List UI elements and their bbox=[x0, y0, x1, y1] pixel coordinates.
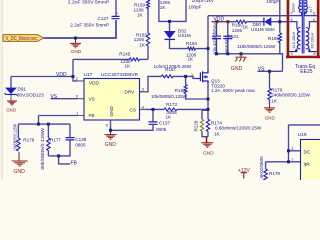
wire U17 gnd pin5 bbox=[110, 120, 112, 130]
resistor R170 bbox=[268, 89, 271, 100]
svg-text:VDD: VDD bbox=[56, 72, 67, 78]
svg-text:DRV: DRV bbox=[125, 90, 136, 95]
svg-text:1K: 1K bbox=[137, 12, 144, 17]
svg-text:US1M: US1M bbox=[178, 33, 191, 38]
wire U17 pin2 bbox=[73, 77, 78, 81]
svg-text:U17: U17 bbox=[84, 72, 93, 78]
svg-text:R164: R164 bbox=[186, 41, 197, 46]
wire y124 bbox=[18, 123, 70, 125]
ground GND main rail bbox=[70, 38, 81, 48]
svg-text:100pF/1kV: 100pF/1kV bbox=[192, 0, 215, 3]
diode D50 bbox=[264, 18, 271, 26]
junction at R174 top bbox=[207, 108, 210, 111]
svg-text:9: 9 bbox=[313, 18, 315, 22]
components bright blue bbox=[17, 0, 282, 181]
wire R179 to pin7 bbox=[266, 162, 289, 169]
svg-text:R167: R167 bbox=[165, 67, 176, 72]
junction at R170 top bbox=[268, 70, 271, 73]
svg-text:R176: R176 bbox=[23, 137, 34, 142]
svg-text:2.2uF 350V 5mmP: 2.2uF 350V 5mmP bbox=[70, 22, 109, 27]
resistor R163 bbox=[146, 33, 149, 46]
svg-text:2.2uF 350V 5mmP: 2.2uF 350V 5mmP bbox=[68, 0, 110, 5]
junction at C137 top bbox=[152, 108, 155, 111]
svg-text:FB: FB bbox=[71, 160, 78, 166]
component value and designator texts bbox=[12, 0, 310, 178]
svg-text:R180: R180 bbox=[232, 22, 243, 27]
svg-text:118k/0805/0.125W: 118k/0805/0.125W bbox=[237, 44, 276, 49]
resistor R159 bbox=[147, 0, 150, 9]
zener bottom lead bbox=[10, 95, 12, 101]
svg-text:US1M SMA: US1M SMA bbox=[251, 27, 276, 32]
wire drain vertical bbox=[207, 16, 209, 73]
wire cap1 leads bbox=[216, 22, 218, 54]
wire C137 top lead bbox=[152, 109, 154, 122]
U19 ic body bbox=[301, 140, 320, 183]
svg-text:1206: 1206 bbox=[232, 28, 243, 33]
wire R167 out to gate bbox=[173, 76, 196, 78]
junction at R168 top bbox=[184, 75, 187, 78]
resistor R167 bbox=[162, 75, 174, 78]
svg-text:C127: C127 bbox=[98, 16, 109, 21]
wire source vertical bbox=[207, 81, 209, 119]
svg-text:CS: CS bbox=[130, 107, 137, 112]
svg-text:U19: U19 bbox=[298, 132, 307, 138]
resistor R173 bbox=[164, 108, 177, 111]
svg-text:VS: VS bbox=[89, 97, 95, 102]
junction at FB divider left bbox=[37, 123, 40, 126]
svg-text:R145: R145 bbox=[119, 51, 130, 56]
diode D62 bbox=[165, 31, 176, 39]
svg-text:3: 3 bbox=[291, 52, 293, 56]
junction at Q13 drain bbox=[207, 47, 210, 50]
junction at 100pF tap bbox=[278, 20, 281, 23]
svg-text:GND: GND bbox=[203, 151, 214, 157]
svg-text:GND: GND bbox=[6, 108, 16, 113]
resistor R168 bbox=[184, 85, 187, 94]
svg-text:3: 3 bbox=[142, 88, 144, 92]
svg-text:VS: VS bbox=[50, 94, 57, 100]
svg-text:10k/0805/0.125W: 10k/0805/0.125W bbox=[151, 94, 188, 99]
junction at VDD corner bbox=[72, 75, 75, 78]
wire caps rail y54 bbox=[217, 54, 283, 72]
wire U19 pin7 stub bbox=[289, 161, 301, 163]
ground earth caps rail bbox=[236, 54, 247, 62]
junction at FB stub bbox=[57, 154, 60, 157]
resistor R228 olive bbox=[200, 119, 203, 131]
wire VDD vertical bbox=[72, 59, 74, 76]
svg-text:R173: R173 bbox=[166, 102, 177, 107]
svg-text:1206: 1206 bbox=[134, 37, 145, 42]
wire VS right bbox=[258, 70, 283, 72]
svg-text:V_DC_Boost-sec: V_DC_Boost-sec bbox=[6, 36, 38, 42]
net labels maroon bbox=[50, 17, 315, 167]
wire R159 R163 chain bbox=[147, 8, 149, 59]
svg-text:1.2A, 600V peak max: 1.2A, 600V peak max bbox=[211, 88, 256, 93]
svg-text:5: 5 bbox=[106, 124, 108, 128]
wire y48 from D62 bbox=[170, 40, 209, 49]
sheet border edge bbox=[0, 0, 2, 180]
svg-text:VDD: VDD bbox=[214, 17, 225, 23]
svg-text:0805/50V: 0805/50V bbox=[224, 35, 229, 55]
wire R177 lead bbox=[47, 124, 49, 156]
svg-text:30k/0805/0.125W: 30k/0805/0.125W bbox=[40, 127, 45, 170]
svg-text:1: 1 bbox=[76, 111, 78, 115]
svg-text:R177: R177 bbox=[50, 137, 61, 142]
wire C138 top lead bbox=[69, 124, 71, 137]
svg-text:GND: GND bbox=[13, 169, 25, 175]
U17 ic body bbox=[84, 79, 140, 121]
wire DRV stub bbox=[140, 76, 162, 91]
svg-text:C138: C138 bbox=[75, 137, 86, 142]
zener diode D91 bbox=[4, 88, 17, 96]
resistor R177 bbox=[47, 138, 50, 151]
power port +12V bbox=[241, 173, 247, 179]
resistor R176 bbox=[17, 138, 20, 151]
svg-text:C137: C137 bbox=[159, 121, 170, 126]
svg-text:1K: 1K bbox=[214, 131, 221, 136]
svg-text:190uH: 190uH bbox=[291, 2, 295, 12]
svg-text:DC: DC bbox=[304, 150, 311, 155]
svg-text:R165: R165 bbox=[268, 36, 279, 41]
svg-text:R168: R168 bbox=[175, 88, 186, 93]
wire y156 bbox=[48, 140, 70, 156]
wire snubber U bbox=[159, 0, 186, 21]
svg-text:GND: GND bbox=[265, 116, 276, 121]
ground R170 bbox=[264, 105, 275, 113]
wire VDD horizontal bbox=[11, 76, 73, 78]
junction at U19 pin3 bbox=[287, 149, 290, 152]
wire R170 chain bbox=[269, 71, 271, 104]
svg-text:UCC28742DBVR: UCC28742DBVR bbox=[101, 72, 139, 78]
svg-text:2: 2 bbox=[76, 77, 78, 81]
junction at C129 bottom bbox=[215, 52, 218, 55]
junction at D52 snubber bbox=[168, 20, 171, 23]
svg-text:GND: GND bbox=[231, 66, 243, 72]
wire R176 lead bbox=[17, 124, 19, 138]
svg-text:1K: 1K bbox=[166, 115, 173, 120]
ground U17 pin5 bbox=[105, 130, 117, 139]
svg-text:44 T: 44 T bbox=[309, 6, 313, 12]
svg-text:0805: 0805 bbox=[75, 143, 86, 148]
svg-text:240k/0805/0.125W: 240k/0805/0.125W bbox=[271, 92, 310, 97]
svg-text:100pF: 100pF bbox=[266, 0, 279, 4]
svg-text:VS: VS bbox=[258, 67, 265, 73]
resistor R145 bbox=[130, 58, 140, 61]
wire y59 to R145 bbox=[73, 58, 148, 60]
svg-text:6: 6 bbox=[76, 95, 78, 99]
capacitor C138 bbox=[66, 138, 75, 140]
svg-text:30V,SOD123: 30V,SOD123 bbox=[17, 92, 44, 97]
svg-text:0805: 0805 bbox=[156, 127, 167, 132]
wire VS stub bbox=[51, 98, 78, 100]
svg-text:100uF/0805/50V: 100uF/0805/50V bbox=[213, 22, 218, 55]
svg-text:4: 4 bbox=[142, 105, 144, 109]
transformer windings bbox=[290, 0, 317, 54]
svg-text:6: 6 bbox=[313, 12, 315, 16]
junction at C127 tap bbox=[74, 37, 77, 40]
junction at C129 top bbox=[216, 20, 219, 23]
svg-text:GND: GND bbox=[71, 49, 82, 55]
junction at earth gnd tap bbox=[240, 52, 243, 55]
svg-text:GND: GND bbox=[105, 142, 117, 148]
svg-text:10k/0805/0.125W: 10k/0805/0.125W bbox=[12, 124, 17, 151]
junction at C131 bottom bbox=[226, 52, 229, 55]
svg-text:+12V: +12V bbox=[238, 168, 250, 174]
junction at R177 top bbox=[47, 123, 50, 126]
svg-text:D91: D91 bbox=[18, 87, 27, 92]
wire VDD rail right bbox=[212, 21, 288, 23]
svg-text:1: 1 bbox=[191, 73, 193, 77]
wire zener top lead bbox=[10, 77, 12, 88]
U17 pin stubs grey bbox=[78, 81, 147, 126]
transformer T (maroon room box) bbox=[286, 0, 320, 58]
wire port to cap bbox=[44, 20, 117, 38]
svg-text:R179: R179 bbox=[269, 171, 280, 176]
wire FB label stub bbox=[59, 156, 70, 164]
transistor Q13 bbox=[196, 71, 208, 83]
svg-text:4: 4 bbox=[291, 18, 293, 22]
svg-text:VDD: VDD bbox=[89, 81, 100, 86]
wire R168 chain bbox=[186, 76, 208, 99]
transformer polarity dots bbox=[295, 11, 310, 51]
svg-text:1K: 1K bbox=[188, 57, 195, 62]
resistor R180 bbox=[236, 20, 247, 23]
wire 100pF chain bbox=[279, 0, 281, 22]
svg-text:3: 3 bbox=[291, 147, 293, 151]
wire FB pin1 bbox=[39, 116, 78, 125]
junction at Q13 source bbox=[207, 98, 210, 101]
wire R165 chain bbox=[279, 22, 281, 54]
ground zener D91 bbox=[7, 101, 17, 105]
svg-text:100pF: 100pF bbox=[188, 4, 201, 9]
junction at U19 pin7 bbox=[287, 160, 290, 163]
wire U19 feed bbox=[289, 125, 320, 162]
svg-text:1K: 1K bbox=[139, 43, 146, 48]
capacitor C131 bbox=[223, 36, 232, 38]
svg-text:Ipk: Ipk bbox=[304, 161, 311, 166]
svg-text:1K: 1K bbox=[125, 64, 132, 69]
svg-text:8: 8 bbox=[313, 52, 315, 56]
resistor R165 bbox=[279, 33, 282, 43]
svg-text:1K: 1K bbox=[160, 5, 167, 10]
ground R176 bbox=[12, 152, 28, 166]
port V_DC_Boost-sec bbox=[3, 35, 44, 43]
wire y130 to C137 bbox=[111, 125, 154, 130]
junction at C131 top bbox=[226, 20, 229, 23]
capacitor C129 bbox=[212, 36, 221, 38]
resistor R179 bbox=[264, 169, 267, 181]
wire U19 pin3 stub bbox=[289, 150, 301, 152]
svg-text:GND: GND bbox=[109, 105, 114, 116]
wire C127 top lead bbox=[115, 0, 117, 16]
svg-text:1K: 1K bbox=[271, 98, 278, 103]
wire R228 branch bbox=[202, 110, 208, 136]
wire CS to R173 bbox=[140, 108, 209, 110]
wire cap2 leads bbox=[227, 22, 229, 54]
wire y15.7 drain to transformer bbox=[208, 15, 289, 17]
svg-text:44 E 400uH: 44 E 400uH bbox=[292, 31, 296, 49]
svg-text:EE25: EE25 bbox=[300, 69, 312, 75]
wire D62 top lead bbox=[169, 21, 171, 31]
junction at U17 gnd bbox=[109, 129, 112, 132]
svg-text:FB: FB bbox=[89, 113, 95, 118]
svg-text:7: 7 bbox=[291, 158, 293, 162]
svg-text:R228: R228 bbox=[194, 120, 199, 131]
svg-text:302 220uH: 302 220uH bbox=[311, 32, 315, 48]
resistor R174 bbox=[206, 119, 209, 131]
ground R174 R228 bbox=[201, 137, 213, 148]
resistor R164 bbox=[188, 47, 196, 50]
svg-text:4K02/0805: 4K02/0805 bbox=[259, 156, 264, 179]
capacitor C137 bbox=[149, 122, 158, 124]
svg-text:1K: 1K bbox=[243, 24, 250, 29]
svg-text:0.68ohms/1206/0.25W: 0.68ohms/1206/0.25W bbox=[215, 125, 262, 130]
capacitor C127 bbox=[112, 16, 120, 18]
